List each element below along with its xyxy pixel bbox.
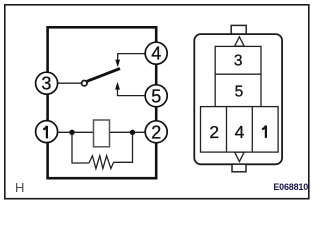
svg-text:3: 3	[234, 53, 243, 70]
svg-text:5: 5	[235, 84, 244, 101]
svg-text:2: 2	[151, 122, 161, 142]
svg-text:4: 4	[235, 122, 245, 142]
svg-text:2: 2	[209, 122, 219, 142]
svg-text:4: 4	[151, 44, 161, 64]
svg-text:E068810: E068810	[273, 182, 308, 192]
svg-text:3: 3	[41, 74, 51, 94]
svg-text:5: 5	[151, 86, 161, 106]
svg-text:H: H	[15, 180, 24, 195]
